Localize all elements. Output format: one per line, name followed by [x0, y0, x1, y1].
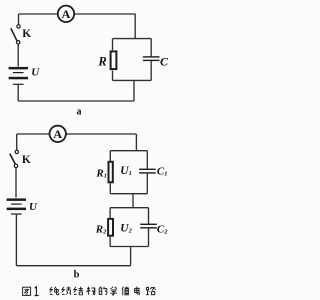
svg-text:U: U	[31, 67, 40, 79]
capacitor C (circuit a)	[143, 56, 160, 61]
wire right entry drop b	[135, 134, 137, 151]
wire box2 right branch lower	[148, 228, 150, 246]
wire box1 right branch upper	[146, 151, 148, 169]
wire box a left branch lower	[112, 71, 114, 81]
svg-text:R: R	[97, 54, 106, 68]
switch K (circuit b)	[10, 150, 19, 167]
wire right riser b	[130, 247, 132, 266]
wire bottom rail b	[16, 265, 130, 267]
caption char 构	[87, 287, 95, 295]
svg-text:U: U	[29, 201, 38, 213]
wire box1 bottom	[110, 193, 147, 195]
battery U (circuit b)	[7, 198, 26, 214]
ammeter A (circuit b)	[50, 126, 66, 142]
wire right entry drop a	[134, 14, 136, 39]
wire switch to battery b	[15, 168, 17, 198]
wire battery to bottom rail b	[15, 215, 17, 266]
wire box2 right branch upper	[148, 208, 150, 225]
wire box a right branch lower	[150, 61, 152, 80]
caption char 等	[110, 287, 117, 295]
wire battery to bottom rail a	[17, 85, 19, 101]
wire box a bottom	[113, 79, 152, 81]
wire right riser a	[133, 80, 135, 101]
wire bottom rail a	[18, 100, 134, 102]
wire top rail b	[17, 133, 137, 135]
wire box2 left branch upper	[109, 208, 111, 218]
caption char 值	[122, 287, 129, 296]
svg-text:b: b	[74, 269, 80, 280]
capacitor C1	[139, 169, 156, 174]
caption char 的	[99, 287, 107, 295]
wire box1 right branch lower	[146, 174, 148, 194]
wire box a left branch upper	[112, 39, 114, 51]
wire box a right branch upper	[150, 39, 152, 57]
wire switch to battery a	[17, 44, 19, 66]
wire box2 left branch lower	[109, 237, 111, 247]
wire box a top	[113, 38, 152, 40]
wire connector box1 to box2	[132, 194, 134, 208]
svg-text:a: a	[77, 107, 82, 118]
svg-text:A: A	[62, 7, 71, 21]
svg-text:A: A	[53, 127, 62, 141]
ammeter A (circuit a)	[58, 6, 74, 22]
svg-text:K: K	[22, 28, 31, 40]
resistor R (circuit a)	[111, 51, 117, 69]
wire box1 top	[110, 150, 147, 152]
caption char 缘	[62, 287, 71, 295]
caption: 图1 绝缘结构的等值电路 (hand-drawn glyphs)	[23, 287, 156, 296]
resistor R2	[108, 219, 113, 236]
resistor R1	[109, 162, 113, 183]
caption char 路	[146, 287, 155, 295]
caption char 结	[74, 287, 83, 295]
caption char 图	[23, 287, 31, 295]
capacitor C2	[140, 224, 157, 229]
wire top rail a	[19, 13, 136, 15]
wire box1 left branch upper	[109, 151, 111, 161]
caption char 绝	[50, 287, 59, 295]
wire left drop to switch b	[16, 134, 18, 150]
wire box2 bottom	[110, 246, 148, 248]
wire box1 left branch lower	[109, 183, 111, 193]
wire box2 top	[110, 207, 148, 209]
svg-text:K: K	[22, 154, 31, 166]
caption char 电	[135, 287, 140, 295]
wire left drop to switch a	[18, 14, 20, 25]
switch K (circuit a)	[11, 25, 20, 44]
battery U (circuit a)	[9, 67, 28, 85]
caption char 1	[34, 287, 38, 296]
svg-text:C: C	[160, 54, 169, 68]
